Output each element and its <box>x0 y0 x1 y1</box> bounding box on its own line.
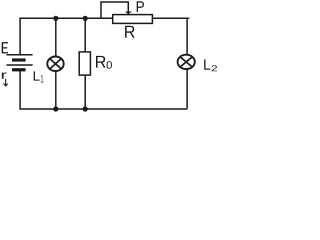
label R potentiometer <box>125 26 135 38</box>
battery cell2 long plate <box>7 64 33 66</box>
junction node top R0 <box>83 16 88 21</box>
wire L1 branch upper <box>55 18 57 56</box>
potentiometer R body <box>113 15 153 24</box>
lamp L1 bulb <box>47 57 63 72</box>
potentiometer wiper arrowhead <box>125 12 132 15</box>
lamp L2 cross <box>180 57 192 67</box>
battery cell1 thick bar <box>12 58 26 61</box>
resistor R0 body <box>79 52 90 75</box>
label L2 subscript 2 <box>212 65 217 71</box>
wire top-right horizontal <box>152 17 189 19</box>
label E <box>2 42 8 53</box>
label L1 subscript 1 <box>41 75 44 82</box>
wire R0 branch lower <box>84 75 86 109</box>
wire bottom horizontal <box>19 108 187 110</box>
battery cell2 thick bar <box>12 68 26 71</box>
label r <box>2 72 7 78</box>
battery E,r cell1 long plate <box>7 54 33 56</box>
label L2 letter L <box>204 59 210 69</box>
wire top-left horizontal <box>19 17 112 19</box>
wire L1 branch lower <box>55 72 57 110</box>
wire left vertical upper <box>19 18 21 55</box>
label R0 letter R <box>96 56 106 68</box>
junction node bottom R0 <box>83 106 88 111</box>
wire L2 branch upper <box>186 18 188 55</box>
junction node bottom L1 <box>53 106 58 111</box>
emf arrow under r <box>4 79 8 86</box>
wire L2 branch lower <box>186 69 188 109</box>
wire left vertical lower <box>19 71 21 109</box>
wire wiper riser and loop <box>101 2 128 18</box>
wire R0 branch upper <box>84 18 86 52</box>
lamp L2 bulb <box>178 55 195 69</box>
junction node top L1 <box>53 16 58 21</box>
lamp L1 cross <box>50 59 62 69</box>
label R0 subscript 0 <box>107 61 113 69</box>
label L1 letter L <box>34 71 40 80</box>
label P <box>137 1 144 12</box>
